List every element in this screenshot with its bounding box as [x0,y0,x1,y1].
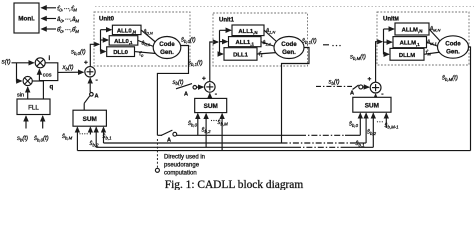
node continuation dash-dots top [323,44,329,46]
svg-text:â1,1: â1,1 [263,40,272,46]
wire ALLM_1 to code gen [427,42,439,46]
wire switch to adder2 [197,86,204,88]
wire bus sb1 (y143) [104,142,282,144]
svg-text:Gen.: Gen. [282,49,296,56]
adder A3 chain M [370,82,381,93]
wire bus to ALLM_N [384,28,394,30]
wire sbM into SUM2 [221,114,223,151]
wire SUM2 to adder2 [209,94,211,99]
svg-text:ŝb,0(t): ŝb,0(t) [181,38,196,44]
wire sbM into SUM1 [76,127,78,150]
svg-text:ŝb,0: ŝb,0 [188,121,198,127]
svg-text:sb(t): sb(t) [173,80,184,86]
wire bus to ALL1_N [220,29,231,31]
wire tau estimates into Moni. [42,7,57,9]
wire x_b(t) to adder1 [58,71,83,73]
wire s(t) into mixer I [12,62,34,64]
svg-text:sb(t): sb(t) [329,80,340,86]
wire bus sb2 (y147.3) [96,146,295,148]
svg-text:ALLM,1: ALLM,1 [400,41,421,47]
summer SUM3 [353,97,391,112]
svg-text:-: - [96,77,99,84]
svg-text:â0,1: â0,1 [142,41,151,47]
wire a estimates into Moni. [42,18,57,20]
svg-text:sin: sin [17,93,24,99]
wire adder3 output to UnitM [376,42,382,82]
wire mixer I output loop [39,63,57,81]
svg-text:computation: computation [164,171,197,177]
svg-text:A: A [184,92,188,98]
svg-text:Code: Code [281,41,297,48]
switch A chainM [353,85,359,90]
wire Unit1 input bus [219,30,221,54]
svg-text:A: A [95,94,99,100]
svg-text:â0,⋯,âM: â0,⋯,âM [57,17,79,23]
node dots under SUM3 [377,121,383,122]
svg-text:ŝb,1: ŝb,1 [103,134,113,140]
svg-text:ŝb,M: ŝb,M [62,134,73,140]
svg-text:â1,N: â1,N [266,28,275,34]
svg-text:SUM: SUM [204,103,218,110]
svg-text:Code: Code [159,41,175,48]
svg-text:Fig. 1: CADLL block diagram: Fig. 1: CADLL block diagram [165,179,304,190]
wire bus to ALL0_N [101,29,112,31]
svg-text:DLL1: DLL1 [233,53,248,59]
wire sb1 into SUM1 [103,127,105,143]
wire switch to adder3 [363,86,369,88]
decorative faint top dotted line [95,6,474,8]
block DLL1 [224,48,257,61]
block ALLM_1 [393,37,427,48]
svg-text:SUM: SUM [83,116,97,123]
wire stub into SUM1 [89,127,91,134]
wire sb0 into SUM3 [359,113,361,135]
wire sb2 into SUM3 [372,113,374,147]
adder A2 chain 1 [205,82,216,93]
svg-text:-: - [215,91,218,98]
wire bus to DLL0 [101,51,106,53]
wire Unit0 input bus [100,30,102,52]
block ALLM_N [395,23,429,35]
svg-text:+: + [84,60,88,67]
code generator UM [438,36,469,58]
svg-text:ŝb,M(t): ŝb,M(t) [442,76,458,82]
wire adder2 output to Unit1 [210,42,218,82]
svg-text:pseudorange: pseudorange [164,163,200,169]
svg-text:cos: cos [43,72,52,78]
svg-text:ŝb,M: ŝb,M [218,120,229,126]
svg-text:ŝb,2: ŝb,2 [202,128,212,134]
wire ALL0_N to code gen [141,30,156,43]
svg-text:Gen.: Gen. [446,48,460,55]
svg-text:ALL1,1: ALL1,1 [235,40,254,46]
svg-text:ALLM,N: ALLM,N [402,28,423,34]
wire ALLM_N to code gen [429,29,441,42]
wire bus to DLLM [384,53,389,55]
switch A bottom (pseudorange tap) [157,134,162,136]
svg-text:UnitM: UnitM [383,17,399,23]
code generator U1 [274,37,304,59]
wire code gen1 output [282,48,310,144]
block ALL0_1 [109,36,138,45]
wire code genM output down right edge [469,47,471,151]
block DLLM [390,48,424,60]
unit box Unit0 dashed [94,12,190,66]
svg-text:ŝb,2: ŝb,2 [90,141,100,147]
wire sb0 into SUM2 [197,114,199,136]
wire s_b0 estimate into FLL [42,116,44,128]
svg-text:τ̂M: τ̂M [426,50,432,56]
svg-text:sb,M(t): sb,M(t) [350,55,366,61]
summer SUM2 [195,98,227,112]
unit box Unit1 dashed [213,13,308,66]
wire code gen0 output [157,46,188,136]
node dots under SUM1 [79,133,87,134]
svg-text:+: + [202,76,206,83]
monitor block Moni. [14,3,39,33]
block ALL0_N [112,25,141,34]
wire ALL0_1 to code gen [138,40,154,46]
svg-text:ALL1,N: ALL1,N [238,29,257,35]
svg-text:+: + [368,76,372,83]
svg-text:ŝb,0: ŝb,0 [349,122,359,128]
summer SUM1 [73,110,106,126]
svg-text:sb,1(t): sb,1(t) [188,61,203,67]
mixer I (multiplier) [35,58,45,68]
svg-text:â0,N: â0,N [144,29,153,35]
wire ALL1_1 to code gen [261,42,275,47]
svg-text:sb(t): sb(t) [17,136,28,142]
wire sb2 into SUM2 [205,114,207,148]
wire bus sb0 (y135) [177,134,300,136]
svg-text:Gen.: Gen. [160,49,174,56]
wire SUM3 to adder3 [375,94,377,97]
wire theta estimates into Moni. [42,28,57,30]
svg-text:DLLM: DLLM [399,53,415,59]
wire branch to mixer Q [17,63,22,81]
svg-text:xb(t): xb(t) [62,65,74,71]
svg-text:A: A [350,91,354,97]
svg-text:τ̂0,⋯,τ̂M: τ̂0,⋯,τ̂M [57,6,77,12]
wire cos drive into mixer I [38,70,40,81]
block ALL1_N [232,25,264,36]
block DLL0 [107,47,135,57]
svg-text:Unit0: Unit0 [99,17,115,23]
block ALL1_1 [229,37,262,47]
svg-text:Directly used in: Directly used in [164,155,205,161]
wire DLLM to code gen [424,52,441,54]
svg-text:ŝb,1(t): ŝb,1(t) [302,39,317,45]
switch A chain0 [90,93,94,97]
svg-text:âM,1: âM,1 [427,40,437,46]
wire q output into FLL line [32,80,43,82]
svg-text:ALL0,N: ALL0,N [117,28,136,34]
svg-text:ALL0,1: ALL0,1 [114,39,133,45]
svg-text:τ̂1: τ̂1 [259,52,263,58]
svg-text:Unit1: Unit1 [219,18,235,24]
wire adder1 output s_b0 up to Unit0 [90,44,99,66]
svg-text:Moni.: Moni. [18,16,35,23]
wire UnitM input bus [383,29,385,54]
code generator U0 [153,37,181,59]
svg-text:DLL0: DLL0 [113,50,128,56]
wire sb2 into SUM1 [95,127,97,147]
wire ALL1_N to code gen [264,30,278,42]
wire s_b(t) into FLL [25,116,27,128]
wire bus to ALL0_1 [101,39,109,41]
switch A chain1 [176,84,192,89]
wire DLL1 to code gen [257,53,278,55]
svg-text:Code: Code [445,40,461,47]
svg-text:FLL: FLL [28,104,39,111]
svg-text:SUM: SUM [365,103,379,110]
svg-text:ŝb,1: ŝb,1 [356,141,366,147]
wire bus to DLL1 [220,53,223,55]
svg-text:i: i [49,55,51,62]
wire sin drive into mixer Q [27,87,29,99]
wire stub sbM-1 into SUM3 [385,113,387,128]
svg-text:âM,N: âM,N [430,26,440,32]
svg-text:ŝb,2: ŝb,2 [367,130,377,136]
svg-text:ŝb,M-1: ŝb,M-1 [385,123,400,129]
wire bus to ALLM_1 [384,41,392,43]
FLL block [17,99,50,115]
svg-text:sb,0(t): sb,0(t) [71,50,86,56]
node label cos [43,71,54,77]
wire dashed pseudorange tap [156,139,158,168]
svg-text:s(t): s(t) [2,59,11,66]
unit box UnitM dashed [377,12,469,65]
wire FLL to NCO vertical [42,81,44,99]
wire SUM1 feedback to adder1 [89,78,91,84]
mixer Q (multiplier) [23,76,32,85]
wire sb1 into SUM3 [365,113,367,143]
wire bus sbM (y150.6) [77,150,470,152]
adder A1 chain 0 [85,67,95,77]
svg-text:ŝb,0(t): ŝb,0(t) [34,136,49,142]
wire bus to ALL1_1 [220,41,228,43]
svg-text:θ̂0,⋯,θ̂M: θ̂0,⋯,θ̂M [57,28,79,34]
svg-text:q: q [50,84,54,91]
wire DLL0 to code gen [135,52,157,54]
wire s_b(t) dashdot into chain M [316,85,352,87]
node dots under SUM2 [211,120,219,121]
